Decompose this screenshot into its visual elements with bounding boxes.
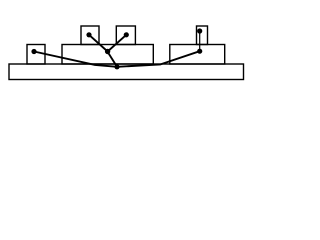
- node dot in box B1: [86, 32, 91, 37]
- edge B2-dot to middle-dot: [108, 35, 127, 52]
- edge middle-dot to root-dot: [107, 52, 117, 67]
- middle grandchild box B1: [81, 26, 99, 45]
- node dot in left box: [31, 49, 36, 54]
- edge right-top-dot to right-lower-dot: [199, 31, 201, 51]
- edge B1-dot to middle-dot: [89, 35, 108, 52]
- edge right-lower-dot to root-dot (bent): [117, 51, 200, 67]
- left child box: [27, 45, 45, 65]
- node dot in box B2: [124, 32, 129, 37]
- bottom (root) cluster rectangle: [9, 64, 244, 80]
- root node dot in bottom rectangle: [114, 64, 119, 69]
- edge left-dot to root-dot (bent): [34, 52, 117, 67]
- node dot in right rectangle: [197, 49, 202, 54]
- node dot in middle rectangle: [105, 49, 110, 54]
- middle grandchild box B2: [116, 26, 135, 45]
- node dot in right top box: [197, 28, 202, 33]
- right grandchild box: [197, 26, 208, 45]
- right child rectangle: [170, 45, 225, 65]
- middle child rectangle: [62, 45, 153, 65]
